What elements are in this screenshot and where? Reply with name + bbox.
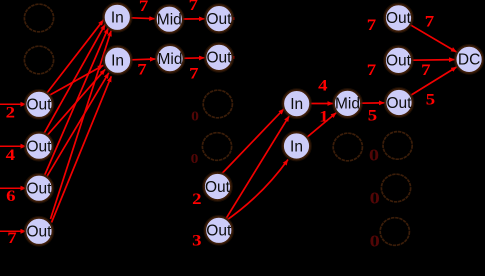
svg-text:7: 7 bbox=[421, 62, 431, 79]
svg-text:Out: Out bbox=[205, 179, 231, 196]
svg-text:Out: Out bbox=[207, 11, 233, 28]
svg-text:Out: Out bbox=[27, 139, 53, 156]
svg-text:7: 7 bbox=[367, 17, 377, 34]
svg-text:0: 0 bbox=[191, 109, 199, 124]
svg-text:0: 0 bbox=[369, 145, 379, 164]
svg-text:7: 7 bbox=[367, 62, 377, 79]
svg-text:0: 0 bbox=[370, 189, 380, 208]
svg-text:3: 3 bbox=[192, 233, 202, 250]
svg-text:In: In bbox=[290, 96, 303, 113]
svg-text:Mid: Mid bbox=[335, 96, 360, 113]
svg-text:0: 0 bbox=[191, 152, 199, 167]
svg-text:In: In bbox=[111, 53, 124, 70]
svg-text:2: 2 bbox=[6, 105, 16, 122]
svg-text:7: 7 bbox=[137, 62, 147, 79]
svg-text:Out: Out bbox=[387, 95, 413, 112]
svg-text:Mid: Mid bbox=[158, 51, 183, 68]
svg-text:DC: DC bbox=[458, 52, 480, 69]
svg-text:1: 1 bbox=[319, 108, 328, 125]
svg-text:7: 7 bbox=[139, 0, 149, 15]
svg-text:Out: Out bbox=[27, 181, 53, 198]
svg-text:5: 5 bbox=[368, 108, 378, 125]
svg-text:7: 7 bbox=[189, 0, 199, 14]
svg-text:Out: Out bbox=[386, 10, 412, 27]
svg-text:0: 0 bbox=[370, 232, 380, 251]
svg-text:7: 7 bbox=[7, 230, 17, 247]
svg-text:7: 7 bbox=[189, 66, 199, 83]
svg-text:Out: Out bbox=[386, 53, 412, 70]
svg-text:4: 4 bbox=[318, 77, 328, 94]
svg-text:4: 4 bbox=[6, 147, 16, 164]
svg-text:2: 2 bbox=[192, 191, 202, 208]
svg-text:6: 6 bbox=[6, 188, 16, 205]
svg-text:7: 7 bbox=[425, 13, 435, 30]
svg-text:Out: Out bbox=[206, 223, 232, 240]
svg-text:5: 5 bbox=[426, 91, 436, 108]
svg-text:Out: Out bbox=[207, 50, 233, 67]
svg-text:Out: Out bbox=[27, 224, 53, 241]
svg-text:In: In bbox=[111, 10, 124, 27]
svg-text:In: In bbox=[290, 138, 303, 155]
svg-text:Out: Out bbox=[27, 97, 53, 114]
svg-text:Mid: Mid bbox=[157, 12, 182, 29]
